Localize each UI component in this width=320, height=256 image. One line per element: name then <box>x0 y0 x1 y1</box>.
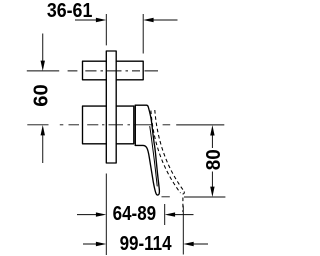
arrowhead 36-61 left (points right) <box>96 18 106 22</box>
dimension 36-61 extension lines <box>106 14 143 54</box>
svg-text:80: 80 <box>203 149 225 170</box>
svg-text:60: 60 <box>30 84 52 107</box>
arrowhead 99-114 left (points right) <box>96 242 106 246</box>
lever handle solid outline <box>135 105 159 195</box>
valve body <box>83 106 134 144</box>
arrowhead 36-61 right (points left) <box>143 18 153 22</box>
dimension 60 arrow shafts <box>42 34 44 164</box>
dimension 80 shaft <box>211 134 213 188</box>
arrowhead 80 down <box>210 187 214 197</box>
svg-text:36-61: 36-61 <box>47 0 93 22</box>
arrowhead 99-114 right (points left) <box>183 242 193 246</box>
arrowhead 64-89 left (points right) <box>96 212 106 216</box>
arrowhead 60 up <box>41 125 45 135</box>
wall plate <box>106 51 116 163</box>
svg-text:64-89: 64-89 <box>113 203 157 225</box>
dimension 64-89 extension lines <box>106 174 164 256</box>
dimension 99-114 extension line right <box>182 206 184 255</box>
dimension 99-114 arrow lines <box>83 243 208 245</box>
lever handle rotated position (dashed) <box>151 110 184 212</box>
handle hub back edge <box>134 105 136 145</box>
arrowhead 64-89 right (points left) <box>165 212 175 216</box>
arrowhead 80 up <box>210 125 214 135</box>
arrowhead 60 down <box>41 61 45 71</box>
dimension 36-61 arrow lines <box>75 19 178 21</box>
svg-text:99-114: 99-114 <box>120 233 173 255</box>
dimension 80 extension lines <box>162 125 226 197</box>
dimension 64-89 arrow lines <box>77 214 194 216</box>
dashed extension below rotated lever tip <box>182 198 184 213</box>
centerline of supply pipe <box>27 70 158 72</box>
centerline of valve body <box>27 124 170 126</box>
supply pipe left segment <box>83 61 107 80</box>
supply pipe right segment <box>116 61 143 80</box>
lever handle inner face line <box>150 127 157 187</box>
